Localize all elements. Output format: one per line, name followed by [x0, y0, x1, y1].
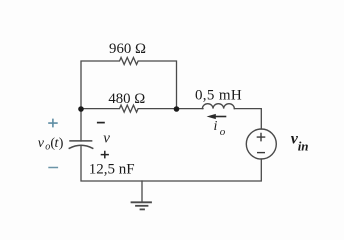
svg-text:): ) [59, 136, 64, 151]
svg-text:v: v [38, 136, 45, 151]
svg-text:o: o [220, 126, 226, 138]
svg-text:0,5 mH: 0,5 mH [195, 88, 242, 104]
svg-text:i: i [214, 119, 218, 134]
svg-text:12,5 nF: 12,5 nF [89, 162, 135, 178]
svg-text:v: v [103, 131, 110, 147]
svg-text:480 Ω: 480 Ω [108, 91, 145, 107]
svg-text:960 Ω: 960 Ω [109, 41, 146, 57]
svg-text:in: in [298, 139, 309, 154]
